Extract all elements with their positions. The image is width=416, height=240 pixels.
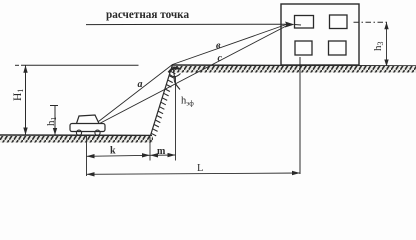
leader line to calculation point bbox=[86, 23, 287, 25]
effective height leader squiggle bbox=[174, 67, 180, 90]
h3 dimension line bbox=[386, 22, 388, 66]
k dimension line bbox=[87, 155, 151, 156]
svg-text:k: k bbox=[110, 146, 116, 157]
svg-text:h1: h1 bbox=[45, 117, 58, 127]
H1 dimension line bbox=[25, 65, 27, 135]
svg-text:hэф: hэф bbox=[181, 96, 194, 108]
leader tail into window bbox=[295, 24, 302, 27]
svg-text:а: а bbox=[138, 79, 143, 90]
window top-left bbox=[295, 16, 314, 29]
window top-right bbox=[330, 15, 348, 29]
ray a: car to slope brow bbox=[99, 65, 173, 122]
slope face bbox=[151, 65, 173, 136]
car wheel right bbox=[95, 130, 100, 135]
window bottom-right bbox=[329, 41, 347, 55]
extension line at brow (x=175.5) bbox=[175, 76, 177, 161]
svg-text:h3: h3 bbox=[372, 42, 385, 52]
svg-text:H1: H1 bbox=[12, 89, 25, 101]
upper ground line bbox=[172, 65, 416, 66]
leader arrowhead bbox=[285, 22, 295, 28]
building outline bbox=[281, 4, 359, 65]
L dimension line bbox=[87, 173, 301, 174]
svg-text:расчетная точка: расчетная точка bbox=[106, 9, 189, 21]
lower ground line bbox=[0, 134, 152, 137]
upper ground hatching bbox=[173, 66, 416, 73]
angle arc at brow bbox=[169, 74, 180, 77]
slope face hatch ticks bbox=[151, 67, 177, 136]
car wheel left bbox=[76, 130, 81, 135]
H1 top reference line bbox=[21, 64, 139, 66]
H1 top left tick bbox=[15, 64, 19, 66]
extension line at slope toe (x=150) bbox=[149, 137, 151, 161]
svg-text:m: m bbox=[157, 146, 166, 157]
h1 tick bbox=[50, 105, 58, 107]
svg-text:L: L bbox=[197, 163, 203, 174]
ray c: direct car to window bbox=[100, 25, 290, 124]
brow knot bbox=[169, 68, 180, 72]
lower ground hatching bbox=[0, 136, 153, 143]
extension line at car (x=73) bbox=[86, 136, 88, 176]
m dimension line bbox=[150, 154, 176, 156]
window bottom-left bbox=[295, 41, 312, 55]
h1 dimension line bbox=[54, 106, 56, 136]
h3 dash-dot reference line bbox=[354, 21, 390, 23]
ray b: brow to window bbox=[173, 24, 290, 65]
car body bbox=[70, 124, 105, 132]
svg-text:с: с bbox=[218, 53, 223, 64]
svg-text:в: в bbox=[216, 41, 221, 52]
car cabin bbox=[77, 115, 100, 124]
vertical line below building to L bbox=[299, 57, 301, 174]
